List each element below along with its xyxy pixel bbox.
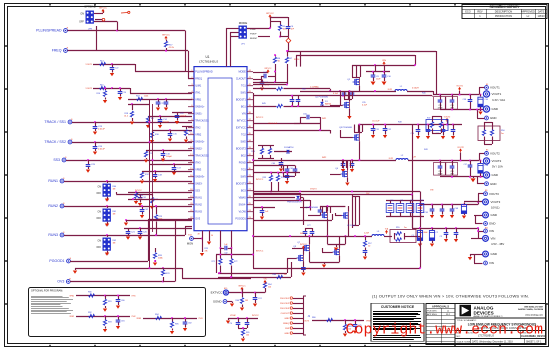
svg-text:VOUT3: VOUT3 — [303, 321, 309, 323]
svg-text:5V / 10A: 5V / 10A — [492, 165, 503, 169]
svg-text:R15: R15 — [100, 85, 104, 87]
pad GND kelvin ch1 — [485, 116, 497, 120]
svg-text:DATE: Wednesday, December 11,: DATE: Wednesday, December 11, 2019 — [472, 341, 513, 344]
svg-text:AHEAD OF WHAT'S POSSIBLE ™: AHEAD OF WHAT'S POSSIBLE ™ — [474, 315, 503, 318]
capacitor C25 on SS3 — [86, 160, 96, 173]
svg-text:INTVCC: INTVCC — [252, 315, 259, 317]
resistor R7 boost divider — [285, 50, 293, 84]
resistor R55 sense box ch3 — [384, 227, 418, 243]
svg-text:ILIM1: ILIM1 — [195, 85, 202, 88]
svg-text:(1) OUTPUT 10V ONLY WHEN VIN >: (1) OUTPUT 10V ONLY WHEN VIN > 10V, OTHE… — [372, 294, 529, 299]
pad RUN3 — [48, 232, 65, 237]
program box notes text — [31, 297, 73, 314]
svg-text:OPTIONAL FOR PROGRAM:: OPTIONAL FOR PROGRAM: — [31, 290, 63, 293]
svg-text:C82: C82 — [188, 323, 192, 325]
wire MODE left legs — [226, 28, 239, 67]
svg-text:CLKOUT: CLKOUT — [236, 78, 246, 81]
wire left vertical rail B — [152, 104, 154, 232]
transistor Q6 fet ch3 — [335, 206, 349, 236]
svg-text:ITH2: ITH2 — [195, 127, 201, 130]
capacitor C4 vin ceramic — [454, 228, 459, 242]
svg-text:GND: GND — [490, 116, 497, 120]
resistor R15 vfb2 divider — [86, 85, 192, 94]
pad MON near U1 — [187, 235, 194, 246]
ground at JP5 — [105, 251, 109, 256]
capacitor C33 sense filter — [290, 95, 301, 107]
inductor L2 — [389, 155, 435, 161]
svg-text:GND: GND — [491, 213, 498, 217]
pad SGND — [213, 300, 234, 307]
capacitor C3 vin ceramic — [440, 228, 449, 242]
svg-text:41.2: 41.2 — [124, 116, 128, 118]
svg-text:C51 1uF: C51 1uF — [372, 121, 380, 123]
svg-text:REV: REV — [477, 10, 483, 14]
pad GND turret ch2 — [483, 172, 498, 178]
capacitor C9 C10 vin ceramics — [366, 65, 392, 85]
capacitor C19 on RUN row — [128, 198, 192, 200]
svg-text:10: 10 — [284, 274, 286, 276]
capacitor C58 bulk out2 — [478, 161, 488, 177]
svg-text:R16: R16 — [96, 93, 100, 95]
svg-text:GND: GND — [492, 173, 499, 177]
svg-text:PGND: PGND — [239, 162, 246, 165]
svg-text:SCALE: NONE: SCALE: NONE — [457, 341, 471, 344]
resistor R21 cluster — [182, 126, 192, 143]
optional resistor program box — [29, 288, 206, 337]
svg-text:R95: R95 — [175, 324, 179, 326]
diode D1 BAT54 — [320, 99, 332, 106]
resistor R80 divider net — [303, 317, 371, 323]
transistor Q3 top fet ch2 — [339, 125, 359, 161]
svg-text:C68: C68 — [455, 208, 458, 210]
svg-text:SW3: SW3 — [300, 233, 304, 235]
svg-text:RUN2: RUN2 — [48, 204, 58, 208]
capacitor C26 vfb2 — [118, 87, 126, 100]
svg-text:ITH2: ITH2 — [132, 316, 136, 318]
svg-text:MODE: MODE — [239, 21, 248, 25]
svg-text:C22: C22 — [115, 68, 118, 70]
svg-text:C76: C76 — [229, 323, 232, 325]
capacitor C51 snubber ch2 — [371, 125, 391, 139]
wire BG3 net — [253, 214, 333, 221]
svg-text:PLLIN/SPREAD: PLLIN/SPREAD — [195, 71, 213, 74]
wire right vertical bus — [252, 93, 421, 269]
capacitor C53 sw2 filter — [341, 160, 355, 172]
J1 pin 4 — [281, 312, 303, 315]
transistor Q4 bottom fet ch2 — [330, 160, 350, 186]
svg-text:OV3: OV3 — [57, 280, 64, 284]
ground SGND pin stub — [207, 231, 213, 245]
resistor R33 ch3 divider — [263, 172, 273, 193]
svg-text:R46: R46 — [422, 93, 426, 95]
svg-text:INTVCC: INTVCC — [266, 13, 274, 15]
svg-text:BOOST1: BOOST1 — [236, 99, 247, 102]
svg-text:GND: GND — [492, 107, 499, 111]
resistor R13 divider — [128, 191, 192, 204]
wire VOUT3 double rail — [253, 191, 420, 228]
wire SW2 power rail — [253, 159, 396, 161]
wire VIN top bus — [288, 51, 437, 95]
svg-text:OPT: OPT — [450, 173, 454, 175]
capacitor C64 ch3 — [285, 172, 294, 185]
svg-text:VFB1: VFB1 — [69, 296, 74, 298]
capacitor C60 mid left — [271, 158, 283, 172]
svg-text:SNS2-: SNS2- — [195, 148, 202, 151]
resistor R66 extvcc pulldown — [235, 293, 248, 311]
capacitor C47 mid — [451, 125, 456, 140]
U1 left pins — [188, 70, 213, 221]
capacitor C55 boxed out2 — [434, 161, 446, 176]
svg-text:INTVCC: INTVCC — [300, 244, 307, 246]
resistor R45 sense 2 — [253, 90, 341, 107]
pad PLLIN/SPREAD — [36, 27, 69, 32]
capacitor C6 mode filter — [286, 21, 295, 33]
pad VOUT1 turret — [483, 91, 505, 102]
capacitor C74 extvcc — [253, 293, 263, 307]
wire VOUT1 rail — [433, 88, 485, 96]
watermark text — [346, 323, 544, 339]
wire TRACK/SS2 net — [72, 141, 192, 143]
svg-text:RUN3: RUN3 — [48, 233, 58, 237]
svg-text:MON: MON — [187, 242, 193, 246]
svg-text:1M: 1M — [245, 300, 248, 302]
wire RUN1 net — [64, 180, 192, 182]
capacitor C75 feedforward — [353, 319, 362, 334]
svg-text:VIN: VIN — [489, 261, 494, 265]
svg-text:0.56uH: 0.56uH — [412, 88, 419, 90]
svg-text:100pF: 100pF — [166, 156, 173, 158]
title block dwg row — [457, 333, 546, 339]
wire BOOST2 net — [253, 123, 321, 131]
wire TG1 net — [253, 81, 287, 83]
svg-text:OFF: OFF — [96, 193, 101, 195]
resistor R93 program net 2 low — [103, 316, 112, 332]
capacitor C65 out3 — [425, 205, 435, 219]
svg-text:R50: R50 — [501, 130, 505, 132]
resistor R90 program net 1 — [69, 292, 135, 298]
svg-text:DCR: DCR — [389, 158, 394, 160]
power VPGD arrow mid — [444, 116, 450, 121]
capacitor C29 cluster — [172, 112, 192, 124]
svg-text:C26: C26 — [123, 92, 126, 94]
svg-text:100: 100 — [246, 335, 249, 337]
power INTVCC stub right — [253, 68, 272, 73]
svg-text:TRACK / SS2: TRACK / SS2 — [44, 140, 66, 144]
svg-text:PCB DES: PCB DES — [427, 310, 437, 312]
svg-text:OFF: OFF — [79, 21, 84, 24]
capacitor C36 boxed out1 — [446, 95, 458, 110]
svg-text:SNS4-: SNS4- — [239, 204, 246, 207]
svg-text:C52: C52 — [388, 129, 392, 131]
svg-text:C57: C57 — [464, 164, 467, 166]
wire VOUT2 rail — [434, 153, 485, 161]
wire JP8 to INTVCC — [94, 11, 118, 31]
svg-text:R80: R80 — [312, 317, 316, 319]
svg-text:VIN: VIN — [382, 60, 386, 62]
svg-text:PGOOD1: PGOOD1 — [235, 218, 246, 221]
pad VOUT3 kelvin — [484, 190, 500, 196]
svg-text:BURST: BURST — [250, 38, 258, 40]
capacitor C35 boxed out1 — [434, 95, 446, 110]
svg-text:SNS3-: SNS3- — [195, 183, 202, 186]
resistor R92 program net 2 — [69, 312, 135, 318]
power INTVCC arrow extvcc — [238, 285, 246, 290]
svg-text:OV3: OV3 — [195, 218, 201, 221]
pad E7 spare — [95, 18, 105, 21]
capacitor C24 on SS2 — [93, 142, 106, 155]
svg-text:www.analog.com: www.analog.com — [525, 315, 543, 317]
wire INTVCC loop bottom — [216, 254, 254, 273]
svg-text:FREQ: FREQ — [195, 78, 202, 81]
pad VIN kelvin low — [484, 261, 494, 265]
wire sense bundle ch2 bottom — [343, 160, 351, 168]
svg-text:C3: C3 — [440, 236, 442, 238]
resistor R94 program net 3 — [136, 314, 202, 320]
svg-text:INTVCC: INTVCC — [237, 120, 246, 123]
wire SW1 power rail — [300, 90, 396, 92]
pad RUN2 — [48, 203, 65, 208]
svg-text:PLLIN/SPREAD: PLLIN/SPREAD — [36, 29, 62, 33]
wire GND2 rail — [440, 176, 484, 184]
svg-text:PSKIP: PSKIP — [250, 34, 257, 36]
svg-text:220pF: 220pF — [163, 121, 170, 123]
capacitor C22 vfb1 — [110, 64, 119, 76]
ground ch3 bottom fets — [309, 262, 339, 268]
svg-text:GND: GND — [489, 222, 496, 226]
capacitor C17 VFB2 network — [150, 163, 192, 175]
svg-text:SW3: SW3 — [241, 176, 247, 179]
wire vprog network — [226, 315, 260, 324]
resistor R20 pgood pull-up — [153, 248, 164, 266]
svg-text:SW1: SW1 — [322, 118, 326, 120]
svg-text:R91: R91 — [108, 301, 112, 303]
customer notice box — [371, 303, 424, 341]
label values sprinkle — [256, 59, 434, 253]
pad GND kelvin ch3 — [484, 222, 496, 226]
svg-text:100k: 100k — [144, 96, 148, 98]
capacitor C80 program net 1 — [116, 295, 125, 309]
wire ch2 fb sense — [253, 166, 300, 174]
title block address — [518, 306, 544, 317]
svg-text:PGOOD3: PGOOD3 — [280, 308, 290, 310]
capacitor C30 between intvcc pins — [220, 231, 233, 259]
svg-text:VLOW: VLOW — [239, 211, 247, 214]
capacitor C46 mid — [436, 125, 446, 140]
svg-text:VFB2: VFB2 — [195, 134, 202, 137]
svg-text:PRODUCTION: PRODUCTION — [495, 14, 512, 18]
svg-text:VOUT1: VOUT1 — [86, 64, 92, 66]
svg-text:SW1: SW1 — [241, 92, 247, 95]
svg-text:ON: ON — [98, 241, 102, 243]
svg-text:GND: GND — [284, 318, 289, 320]
J1 pin 1 — [280, 297, 303, 300]
svg-text:PWM: PWM — [250, 29, 256, 31]
power VIN arrow top — [382, 60, 386, 72]
resistor R5 mode pull — [270, 17, 289, 37]
svg-text:E1: E1 — [486, 84, 488, 86]
wire mid cap rail — [412, 119, 462, 126]
svg-text:41.2k: 41.2k — [169, 47, 175, 49]
capacitor C68 bulk out3 — [455, 203, 467, 219]
svg-text:50: 50 — [211, 235, 213, 237]
capacitor C14 ITH1 network — [146, 115, 192, 128]
power VOUT1 arrow — [456, 85, 462, 94]
transistor Q9 ldo — [287, 246, 304, 266]
capacitor C34 snubber — [342, 91, 355, 96]
resistor R57 ch3 — [363, 235, 372, 260]
capacitor C12 boost — [261, 72, 275, 82]
wire intvcc double bus — [218, 258, 292, 278]
svg-text:R19: R19 — [136, 96, 140, 98]
ground at Q5 Q6 — [327, 235, 347, 237]
pad VOUT3 turret — [483, 199, 501, 209]
svg-text:REVISION HISTORY: REVISION HISTORY — [490, 5, 521, 9]
resistor R6 boost divider — [273, 54, 281, 82]
svg-text:VOUT2: VOUT2 — [457, 147, 463, 149]
svg-text:C61: C61 — [290, 168, 294, 170]
title block main — [455, 304, 546, 345]
svg-text:C77: C77 — [307, 225, 311, 227]
svg-text:BG1: BG1 — [241, 106, 247, 109]
svg-text:Q3 PDS5680: Q3 PDS5680 — [339, 127, 353, 129]
svg-text:ITH1: ITH1 — [132, 296, 136, 298]
svg-text:SS3: SS3 — [195, 190, 200, 193]
svg-text:GND: GND — [490, 182, 497, 186]
svg-text:INTVCC: INTVCC — [99, 7, 107, 9]
pad VOUT1 kelvin — [485, 84, 501, 90]
svg-text:VOUT3: VOUT3 — [491, 200, 501, 204]
wire EXTVCC net — [229, 289, 266, 293]
svg-text:OFF: OFF — [96, 218, 101, 220]
svg-text:VOUT2: VOUT2 — [86, 88, 92, 90]
pad TRACK / SS2 — [44, 139, 73, 144]
svg-text:SNSA1+: SNSA1+ — [195, 106, 205, 109]
ground vin return — [468, 254, 483, 264]
wire ch3 to vout3 — [416, 192, 421, 237]
svg-text:CUSTOMER NOTICE: CUSTOMER NOTICE — [381, 305, 415, 309]
svg-text:VFB3: VFB3 — [195, 169, 202, 172]
resistor R44 sense — [253, 86, 331, 92]
svg-text:TRACK / SS1: TRACK / SS1 — [44, 120, 66, 124]
resistor R81 divider low — [343, 320, 352, 337]
note 1 text — [372, 294, 529, 299]
svg-text:ECO: ECO — [465, 10, 471, 14]
svg-text:C2: C2 — [436, 232, 438, 234]
jumper JP1 MODE — [239, 21, 259, 46]
capacitor C66 out3 — [440, 205, 445, 219]
resistor R16 vfb2 low — [96, 87, 107, 103]
resistor R30 R31 pair — [251, 145, 274, 159]
capacitor C18 ITH3 network — [140, 170, 192, 184]
svg-text:R66: R66 — [235, 300, 239, 302]
svg-text:EXTVCC: EXTVCC — [211, 291, 223, 295]
svg-text:330uF: 330uF — [438, 173, 443, 175]
power VOUT3 arrow ch3 — [385, 227, 389, 233]
capacitor C56 boxed out2 — [446, 161, 458, 176]
svg-text:TRACK/SS2: TRACK/SS2 — [195, 155, 209, 158]
svg-text:ONE ANALOG WAY: ONE ANALOG WAY — [524, 306, 544, 309]
svg-text:INTVCC: INTVCC — [238, 285, 246, 287]
wire ch3 lower return — [327, 236, 345, 251]
pad GND turret vin — [483, 251, 497, 257]
svg-text:C93: C93 — [420, 200, 423, 202]
svg-text:C27: C27 — [161, 103, 164, 105]
capacitor C15 VFB1 network — [150, 129, 192, 143]
svg-text:1.5nH/AC: 1.5nH/AC — [310, 86, 319, 89]
svg-text:R21: R21 — [189, 131, 192, 133]
J1 pin 5 — [284, 317, 303, 320]
svg-text:LJ: LJ — [447, 310, 449, 312]
wire VFB3 row — [124, 219, 192, 226]
J1 pin 8 — [284, 332, 303, 335]
capacitor C20 cluster — [124, 227, 192, 240]
power INTVCC arrow at MODE — [266, 13, 274, 18]
wire FREQ net — [68, 51, 195, 79]
wire SW3 power rail — [253, 235, 372, 237]
svg-text:INTVCC: INTVCC — [162, 34, 170, 36]
svg-text:VIN: VIN — [489, 229, 494, 233]
svg-text:VOUT2: VOUT2 — [492, 159, 502, 163]
pad VOUT2 turret — [483, 158, 502, 169]
svg-text:SHEET 1 OF 1: SHEET 1 OF 1 — [526, 342, 542, 344]
svg-text:SW2: SW2 — [241, 141, 247, 144]
capacitor C41 run1 filter — [116, 190, 152, 206]
svg-text:0.1uF: 0.1uF — [362, 105, 368, 107]
svg-text:VFB1: VFB1 — [195, 99, 202, 102]
wire SNS1 long net — [253, 95, 433, 97]
svg-text:PGOOD1: PGOOD1 — [280, 298, 290, 300]
svg-text:SNSA3+: SNSA3+ — [195, 176, 205, 179]
wire VOUT3 rail — [420, 194, 484, 206]
Analog Devices logo — [460, 305, 503, 318]
resistor R47 sense box mid — [426, 116, 448, 134]
wire left vertical rail A — [149, 99, 151, 269]
svg-text:ITH1: ITH1 — [195, 92, 201, 95]
svg-text:1M: 1M — [113, 242, 116, 244]
capacitor C61 C62 ch3 boost — [283, 166, 297, 177]
capacitor C16 ITH2 network — [144, 149, 192, 163]
svg-text:RUN2: RUN2 — [195, 204, 202, 207]
svg-text:C80: C80 — [121, 300, 125, 302]
svg-text:U1: U1 — [205, 55, 209, 59]
svg-text:GND: GND — [491, 252, 498, 256]
svg-text:INTVCC: INTVCC — [256, 117, 264, 119]
wire sense bundle ch3 — [323, 206, 331, 213]
wire GND1 rail — [440, 109, 485, 119]
svg-text:DESCRIPTION: DESCRIPTION — [495, 10, 513, 14]
svg-text:PGOOD1: PGOOD1 — [49, 259, 64, 263]
svg-text:C81: C81 — [121, 321, 125, 323]
jumper JP8 SPREAD — [79, 5, 96, 31]
svg-text:MODE: MODE — [238, 71, 246, 74]
wire gnd3 stub — [474, 215, 483, 224]
svg-text:EXTVCC: EXTVCC — [236, 127, 246, 130]
svg-text:FREQ: FREQ — [52, 49, 62, 53]
svg-text:Q5 PDS5680: Q5 PDS5680 — [305, 207, 319, 209]
capacitor C72 intvcc ch3 — [253, 206, 275, 220]
capacitor stack ch3 sw — [303, 228, 315, 237]
capacitor C81 program net 2 — [116, 315, 125, 329]
wire VIN input rail — [412, 126, 484, 239]
svg-text:PGOOD2: PGOOD2 — [280, 303, 290, 305]
svg-text:2m: 2m — [404, 227, 407, 229]
pad PGOOD1 — [49, 258, 71, 263]
svg-text:VOUT1: VOUT1 — [492, 92, 502, 96]
svg-text:47k: 47k — [205, 251, 208, 253]
pad E8 spare — [121, 11, 130, 13]
pad FREQ — [52, 47, 69, 52]
pad GND kelvin ch2 — [485, 182, 497, 186]
